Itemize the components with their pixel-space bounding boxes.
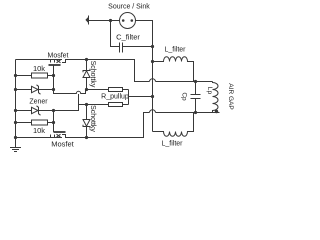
node drain1 / schottky [85, 58, 88, 61]
node rail zener1 [14, 88, 17, 91]
polarity dot Lp [215, 110, 218, 113]
node pullup1 [85, 88, 88, 91]
node pullup2 [85, 103, 88, 106]
wire gate2 vertical [53, 111, 55, 123]
inductor L_filter bottom [153, 113, 194, 137]
zener D2 [16, 106, 54, 115]
hop over rail top [150, 79, 156, 82]
node gate1 [52, 74, 55, 77]
node tank bottom [194, 111, 197, 114]
node rail bottom [14, 136, 17, 139]
zener D1 [16, 85, 54, 94]
branch to pullup node2 [79, 104, 87, 106]
svg-text:Lp: Lp [206, 87, 213, 95]
resistor 10k top [16, 73, 54, 78]
capacitor C_filter [120, 43, 153, 53]
svg-text:L_filter: L_filter [161, 141, 183, 148]
input port terminal [85, 16, 88, 25]
node at C_filter tap [109, 19, 112, 22]
svg-text:Schottky: Schottky [89, 61, 96, 88]
ground [10, 148, 21, 152]
node gate2 zener2 [52, 109, 55, 112]
inductor Lp [213, 82, 219, 113]
hop over rail bottom [150, 110, 156, 113]
ground rail left [15, 60, 17, 148]
svg-text:10k: 10k [33, 126, 45, 135]
bottom drain wire [66, 113, 150, 138]
wire gate1 to pullup node with hop [54, 90, 86, 94]
mosfet Q2 [51, 123, 71, 138]
wire gate1 vertical [53, 76, 55, 90]
svg-text:Mosfet: Mosfet [51, 140, 74, 149]
node gate1 zener1 [52, 88, 55, 91]
svg-text:R_pullup: R_pullup [101, 94, 129, 101]
schottky D4 bottom [83, 105, 90, 138]
svg-text:Cp: Cp [181, 92, 188, 101]
wire source to supply rail [136, 21, 153, 132]
node rail zener2 [14, 109, 17, 112]
cross wire gate2 riser [54, 94, 79, 111]
mosfet Q1 [49, 60, 71, 76]
svg-text:AIR GAP: AIR GAP [227, 83, 234, 109]
wire port to source [89, 20, 120, 22]
svg-text:Mosfet: Mosfet [47, 53, 68, 60]
node rail pullup [151, 95, 154, 98]
node gate2 [52, 121, 55, 124]
svg-text:Schottky: Schottky [89, 105, 96, 132]
svg-text:L_filter: L_filter [164, 47, 186, 54]
resistor R_pullup a [87, 88, 129, 92]
node drain2 / schottky [85, 136, 88, 139]
node rail 10k top [14, 74, 17, 77]
top source wire [16, 59, 63, 61]
svg-text:Zener: Zener [29, 99, 48, 106]
node rail 10k bottom [14, 121, 17, 124]
resistor 10k bottom [16, 120, 54, 125]
wire C_filter left lead [111, 21, 120, 47]
pullup join to rail [128, 90, 130, 105]
svg-text:Source / Sink: Source / Sink [108, 4, 150, 11]
inductor L_filter top [153, 57, 194, 82]
capacitor Cp [191, 82, 201, 113]
svg-text:C_filter: C_filter [116, 33, 140, 42]
svg-text:10k: 10k [33, 64, 45, 73]
bottom source wire [16, 137, 63, 139]
schottky D3 top [83, 60, 90, 90]
node rail L_filter top [151, 60, 154, 63]
node C_filter / rail [151, 45, 154, 48]
node tank top [194, 80, 197, 83]
top drain wire [66, 60, 150, 82]
source / sink symbol U1 [120, 13, 136, 29]
resistor R_pullup b [87, 103, 129, 107]
